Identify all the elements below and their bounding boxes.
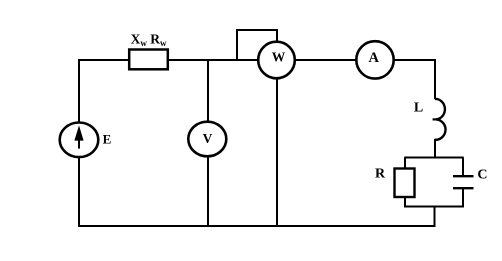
wire: C branch upper lead — [462, 158, 464, 177]
wire: RC centre tap to bottom rail — [434, 207, 436, 228]
ammeter A — [356, 41, 393, 78]
wire: wattmeter current-coil down lead — [276, 60, 278, 227]
source E (circle) — [60, 123, 99, 158]
wire: left vertical (source branch) — [78, 59, 80, 227]
inductor L — [435, 99, 446, 140]
wire: inductor to RC top — [434, 139, 436, 159]
wire: right vertical above inductor — [434, 59, 436, 99]
svg-text:L: L — [414, 101, 423, 116]
wire: C branch lower lead — [462, 188, 464, 208]
svg-text:C: C — [477, 167, 487, 182]
svg-text:A: A — [369, 50, 380, 66]
svg-text:E: E — [103, 132, 112, 147]
wattmeter W — [258, 42, 295, 79]
wire: R branch vertical — [404, 158, 406, 208]
wattmeter potential-coil loop — [237, 30, 277, 61]
resistor R (box) — [395, 169, 415, 198]
resistor Xw Rw (box) — [129, 50, 168, 70]
wire: top rail from source to right branch — [79, 59, 435, 61]
wire: bottom rail — [78, 225, 435, 227]
wire: RC bottom horizontal — [404, 206, 463, 208]
wire: RC top horizontal — [404, 157, 463, 159]
source arrow — [78, 138, 80, 149]
svg-text:W: W — [272, 50, 286, 65]
svg-text:R: R — [375, 167, 386, 182]
voltmeter V — [188, 122, 226, 157]
wire: voltmeter branch vertical — [207, 59, 209, 227]
capacitor C plates — [453, 176, 474, 188]
svg-text:V: V — [203, 131, 213, 146]
